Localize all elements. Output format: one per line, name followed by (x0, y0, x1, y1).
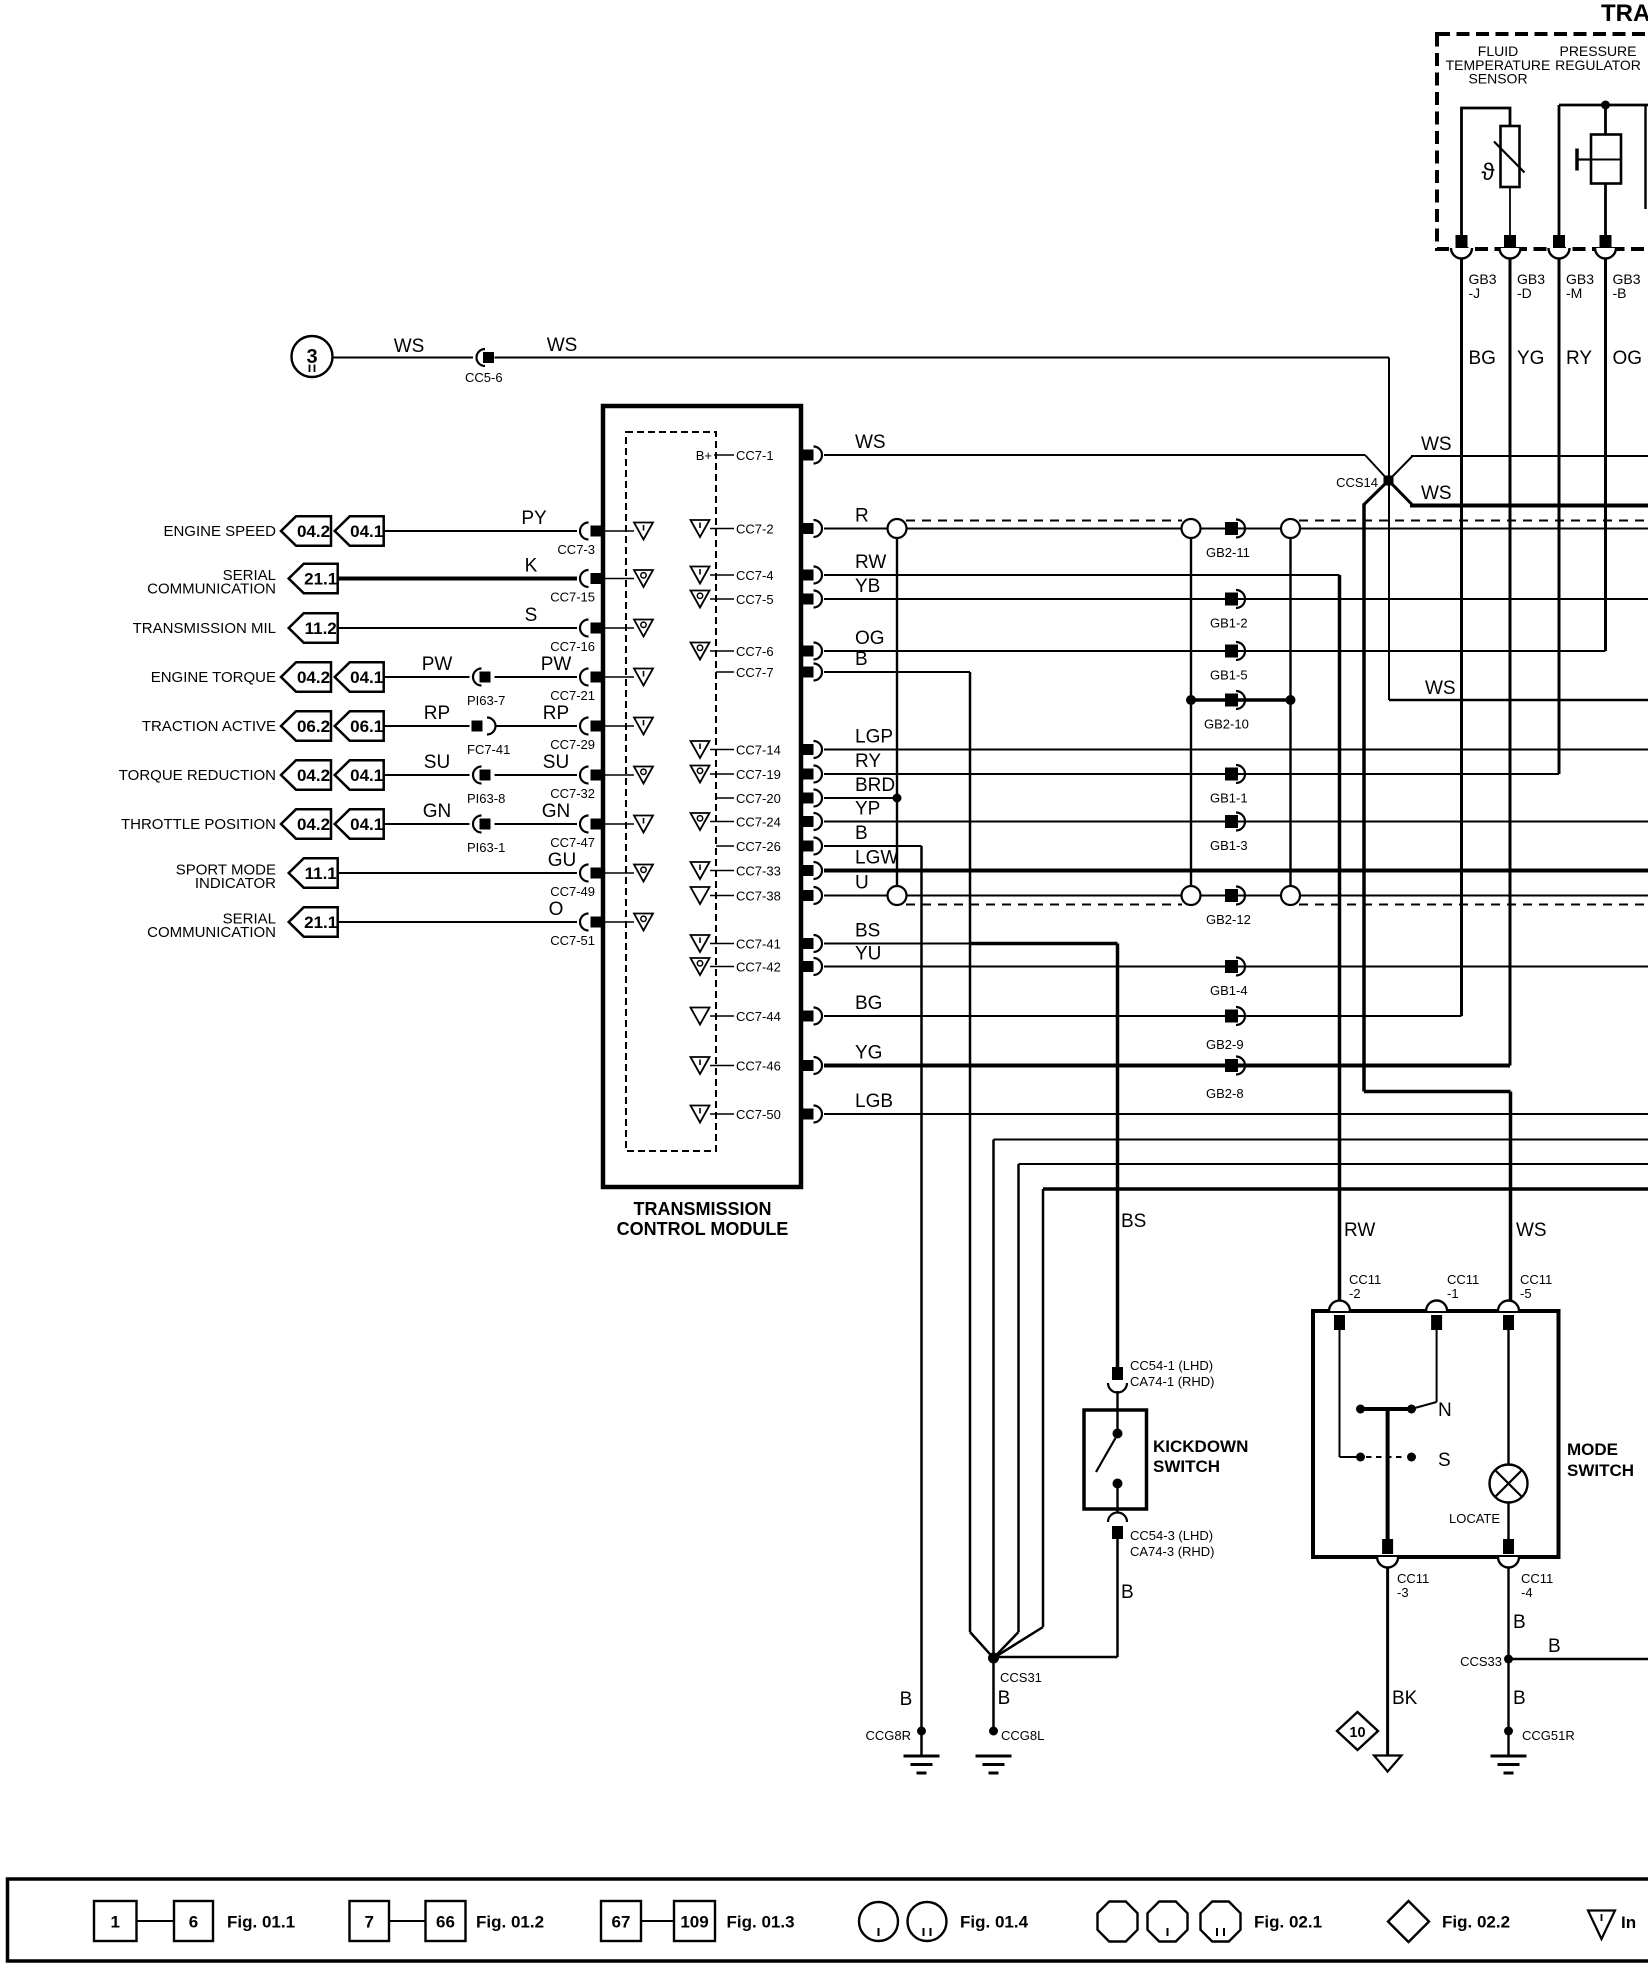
pin CC7-2 on module right edge (803, 523, 814, 534)
svg-text:SU: SU (543, 752, 569, 773)
svg-text:CA74-3 (RHD): CA74-3 (RHD) (1130, 1544, 1215, 1559)
connector GB3-J pin (1456, 235, 1468, 249)
pennant 04.1 (335, 662, 384, 691)
svg-text:PW: PW (541, 654, 572, 675)
svg-text:B: B (855, 649, 868, 670)
svg-text:WS: WS (1516, 1220, 1547, 1241)
svg-text:CC7-42: CC7-42 (736, 960, 781, 975)
svg-text:B: B (855, 823, 868, 844)
svg-text:CC7-14: CC7-14 (736, 743, 781, 758)
svg-text:B: B (1513, 1688, 1526, 1709)
svg-text:-1: -1 (1447, 1286, 1459, 1301)
pin CC7-6 on module right edge (803, 646, 814, 657)
svg-text:Fig. 01.2: Fig. 01.2 (476, 1913, 544, 1932)
connector GB2-12 (1225, 889, 1238, 902)
svg-text:10: 10 (1349, 1725, 1365, 1741)
pin CC7-44 on module right edge (803, 1011, 814, 1022)
wire RP from FC7-41 to CC7-29 (495, 725, 578, 727)
svg-text:Fig. 02.1: Fig. 02.1 (1254, 1913, 1322, 1932)
svg-text:TRA: TRA (1601, 0, 1648, 27)
contact N left dot (1356, 1405, 1365, 1414)
pin CC7-15 on module left edge (580, 570, 588, 587)
svg-text:YU: YU (855, 944, 881, 965)
wire GN from pennant to connector PI63-1 (384, 823, 470, 825)
bus wire between R and U rings (896, 538, 898, 886)
svg-text:Fig. 01.3: Fig. 01.3 (727, 1913, 795, 1932)
pin CC11-2 mode switch top (1329, 1301, 1350, 1311)
transmission unit dashed enclosure (1437, 34, 1648, 249)
svg-text:1: 1 (111, 1913, 120, 1932)
pin CC11-5 mode switch top (1498, 1301, 1519, 1312)
wire WS upper branch to right edge (1411, 455, 1648, 457)
svg-text:S: S (1438, 1450, 1451, 1471)
mode switch internal wire from CC11-2 to S contact (1339, 1330, 1341, 1457)
svg-text:CC7-38: CC7-38 (736, 889, 781, 904)
wire B from CC11-4 to ground CCG51R (1507, 1567, 1509, 1755)
off-page arrow down (1374, 1756, 1402, 1772)
wire RY from GB3-M down (1558, 259, 1561, 774)
svg-text:LGB: LGB (855, 1091, 893, 1112)
node ring on U wire at bus (888, 886, 907, 905)
svg-text:CC7-29: CC7-29 (550, 737, 595, 752)
pin CC7-20 on module right edge (803, 793, 814, 804)
input/output symbol for CC7-14 (691, 741, 710, 758)
svg-text:COMMUNICATION: COMMUNICATION (147, 924, 276, 941)
svg-text:CC7-46: CC7-46 (736, 1059, 781, 1074)
svg-text:WS: WS (1421, 483, 1452, 504)
svg-text:GB1-2: GB1-2 (1210, 616, 1248, 631)
pin CC7-7 on module right edge (803, 667, 814, 678)
wire into kickdown switch (1116, 1391, 1118, 1431)
armature bar pressure regulator (1575, 149, 1579, 171)
svg-text:-5: -5 (1520, 1286, 1532, 1301)
pin CC7-49 on module left edge (580, 865, 588, 882)
svg-text:RP: RP (543, 703, 569, 724)
svg-text:GB2-8: GB2-8 (1206, 1086, 1244, 1101)
svg-text:-2: -2 (1349, 1286, 1361, 1301)
svg-text:11.1: 11.1 (305, 864, 337, 883)
svg-text:CC7-16: CC7-16 (550, 639, 595, 654)
switch MODE SWITCH box (1313, 1311, 1559, 1557)
svg-text:21.1: 21.1 (304, 570, 337, 589)
svg-text:KICKDOWN: KICKDOWN (1153, 1437, 1248, 1456)
svg-text:67: 67 (612, 1913, 631, 1932)
connector GB1-5 (1225, 645, 1238, 658)
input/output symbol for CC7-2 (691, 520, 710, 537)
internal link and input/output symbol for CC7-21 (605, 676, 634, 678)
svg-text:RW: RW (1344, 1220, 1375, 1241)
pin CC7-16 on module left edge (580, 620, 588, 637)
pin CC11-1 mode switch top (1426, 1301, 1447, 1312)
internal link and input/output symbol for CC7-51 (605, 921, 634, 923)
internal link and input/output symbol for CC7-15 (605, 578, 634, 580)
node ring on U wire right of GB2-12 (1281, 886, 1300, 905)
input/output symbol for CC7-42 (691, 958, 710, 975)
wire WS from CC5-6 to splice CCS14 (495, 357, 1390, 359)
wire regulator coil top (1604, 105, 1607, 135)
ground CCG8L (989, 1727, 998, 1736)
connector GB3-D pin (1504, 235, 1516, 249)
pin CC7-1 on module right edge (803, 450, 814, 461)
svg-text:YB: YB (855, 576, 880, 597)
pin CC7-4 on module right edge (803, 570, 814, 581)
svg-text:B: B (998, 1688, 1011, 1709)
svg-text:SENSOR: SENSOR (1468, 71, 1527, 87)
svg-text:GB1-3: GB1-3 (1210, 838, 1248, 853)
dashed link S contacts (1366, 1456, 1406, 1458)
svg-text:-M: -M (1566, 285, 1582, 301)
svg-text:CCS33: CCS33 (1460, 1654, 1502, 1669)
connector PI63-8 (473, 767, 482, 784)
pin CC7-46 on module right edge (803, 1060, 814, 1071)
legend item Fig. 01.1 (94, 1901, 137, 1941)
svg-text:3: 3 (306, 346, 317, 368)
pin CC7-26 on module right edge (803, 841, 814, 852)
pennant 06.2 (281, 711, 331, 740)
svg-text:PY: PY (521, 508, 547, 529)
pennant 04.2 (281, 662, 331, 691)
pin CC7-33 on module right edge (803, 865, 814, 876)
wire PY to CC7-3 (384, 530, 577, 532)
internal link and input/output symbol for CC7-32 (605, 774, 634, 776)
wire YU from CC7-42 to right edge (824, 966, 1648, 968)
thermistor fluid temperature sensor (1501, 126, 1520, 187)
wire SU from pennant to connector PI63-8 (384, 774, 470, 776)
wire WS branch to GB2 rail row (1389, 699, 1648, 702)
internal link and input/output symbol for CC7-16 (605, 627, 634, 629)
pin CC11-3 mode switch bottom (1377, 1557, 1398, 1568)
svg-text:CC11: CC11 (1521, 1571, 1553, 1586)
svg-text:WS: WS (1425, 678, 1456, 699)
svg-text:CC11: CC11 (1397, 1571, 1429, 1586)
svg-text:THROTTLE POSITION: THROTTLE POSITION (121, 816, 276, 833)
wire RY from CC7-19 to GB3-M (824, 773, 1559, 775)
svg-text:INDICATOR: INDICATOR (195, 875, 276, 892)
wire link GB2-10 between rails (1191, 698, 1291, 702)
svg-text:66: 66 (436, 1913, 455, 1932)
svg-text:SWITCH: SWITCH (1153, 1457, 1220, 1476)
svg-text:B: B (1121, 1582, 1134, 1603)
wire OG from GB3-B down (1604, 259, 1607, 651)
svg-text:6: 6 (189, 1913, 198, 1932)
svg-text:CC54-3 (LHD): CC54-3 (LHD) (1130, 1528, 1213, 1543)
switch KICKDOWN SWITCH box (1084, 1410, 1147, 1509)
svg-text:CC7-44: CC7-44 (736, 1009, 781, 1024)
wire WS vertical through CCS14 (1388, 358, 1390, 701)
ground CCG51R (1504, 1727, 1513, 1736)
svg-text:CCS14: CCS14 (1336, 475, 1378, 490)
node ring on R wire right of GB2-11 (1281, 519, 1300, 538)
svg-text:06.2: 06.2 (297, 717, 330, 736)
bus wire GB2 left rail (1190, 538, 1192, 886)
svg-text:K: K (525, 556, 538, 577)
svg-text:GB1-5: GB1-5 (1210, 668, 1248, 683)
pin CC7-21 on module left edge (580, 669, 588, 686)
input/output symbol for CC7-5 (691, 591, 710, 608)
internal link and input/output symbol for CC7-47 (605, 823, 634, 825)
svg-text:B: B (1513, 1612, 1526, 1633)
pennant 11.2 (289, 613, 338, 642)
wire LGB from CC7-50 to right edge (824, 1113, 1648, 1115)
pennant 21.1 (289, 564, 338, 593)
connector CC54-1/CA74-1 (1112, 1367, 1123, 1380)
svg-text:CC7-7: CC7-7 (736, 665, 774, 680)
svg-text:U: U (855, 873, 869, 894)
legend item Fig. 01.2 (350, 1901, 390, 1941)
pennant 04.1 (335, 516, 384, 545)
svg-text:7: 7 (365, 1913, 374, 1932)
wire WS thick branch down to mode switch jog (1362, 504, 1366, 1092)
svg-text:PI63-8: PI63-8 (467, 791, 505, 806)
junction dot left GB2-10 (1186, 695, 1196, 705)
svg-text:CONTROL MODULE: CONTROL MODULE (617, 1219, 789, 1239)
wire YG from CC7-46 to GB3-D (824, 1064, 1510, 1068)
svg-text:GB2-12: GB2-12 (1206, 912, 1251, 927)
wire RP from pennant to connector FC7-41 (384, 725, 470, 727)
svg-text:CC7-24: CC7-24 (736, 815, 781, 830)
connector GB1-2 (1225, 593, 1238, 606)
wire B from CC7-7 to splice CCS31 (824, 671, 970, 673)
pin CC7-29 on module left edge (580, 718, 588, 735)
svg-text:In: In (1621, 1913, 1636, 1932)
svg-text:06.1: 06.1 (350, 717, 383, 736)
pennant 06.1 (335, 711, 384, 740)
svg-text:CC7-15: CC7-15 (550, 590, 595, 605)
svg-text:CC7-50: CC7-50 (736, 1107, 781, 1122)
svg-text:CA74-1 (RHD): CA74-1 (RHD) (1130, 1374, 1215, 1389)
pin CC7-14 on module right edge (803, 744, 814, 755)
wire pressure regulator left leg (1558, 105, 1561, 238)
svg-text:YG: YG (855, 1043, 882, 1064)
svg-text:TRACTION ACTIVE: TRACTION ACTIVE (142, 718, 276, 735)
svg-text:COMMUNICATION: COMMUNICATION (147, 581, 276, 598)
pennant 04.2 (281, 516, 331, 545)
wire S to CC7-16 (338, 627, 577, 629)
svg-text:YP: YP (855, 799, 880, 820)
svg-text:OG: OG (1613, 348, 1643, 369)
pin CC7-32 on module left edge (580, 767, 588, 784)
wire from right edge to splice CCS31 lower thick (1043, 1187, 1648, 1191)
svg-text:ENGINE TORQUE: ENGINE TORQUE (151, 669, 276, 686)
internal link for CC7-20 (716, 797, 734, 799)
node ring on R wire at bus (888, 519, 907, 538)
node 3-II power feed circle (292, 336, 333, 377)
svg-text:CC11: CC11 (1520, 1272, 1552, 1287)
solenoid pressure regulator (1591, 135, 1621, 184)
svg-text:RY: RY (855, 751, 881, 772)
node ring on R wire left of GB2-11 (1182, 519, 1201, 538)
svg-text:04.2: 04.2 (297, 815, 330, 834)
wire LGP from CC7-14 to right edge (824, 749, 1648, 751)
wire B from kickdown to splice CCS31 (1116, 1539, 1119, 1657)
wire thermistor to GB3-D pin (1509, 187, 1511, 238)
splice CCS31 (988, 1653, 999, 1664)
lamp LOCATE (1490, 1465, 1528, 1503)
wire LGW from CC7-33 to right edge (824, 869, 1648, 873)
svg-text:CC7-41: CC7-41 (736, 937, 781, 952)
svg-text:CC7-19: CC7-19 (736, 767, 781, 782)
svg-text:OG: OG (855, 628, 885, 649)
legend item Fig. 01.3 (601, 1901, 641, 1941)
splice CCS14 (1366, 456, 1389, 481)
svg-text:Fig. 01.1: Fig. 01.1 (227, 1913, 295, 1932)
connector GB1-1 (1225, 768, 1238, 781)
connector GB2-8 (1225, 1059, 1238, 1072)
svg-text:WS: WS (855, 432, 886, 453)
connector GB3-B pin (1600, 235, 1612, 249)
legend item internal symbol triangle (1588, 1911, 1615, 1940)
svg-text:PI63-1: PI63-1 (467, 840, 505, 855)
wire BS from CC7-41 to kickdown switch (824, 943, 970, 945)
svg-text:FC7-41: FC7-41 (467, 742, 510, 757)
legend item Fig. 01.4 circles (859, 1902, 898, 1941)
internal link and input/output symbol for CC7-3 (605, 530, 634, 532)
svg-text:-J: -J (1469, 285, 1481, 301)
svg-text:04.2: 04.2 (297, 668, 330, 687)
pin CC7-42 on module right edge (803, 961, 814, 972)
svg-text:CC5-6: CC5-6 (465, 370, 503, 385)
connector FC7-41 (472, 721, 483, 732)
svg-text:-B: -B (1613, 285, 1627, 301)
pennant 11.1 (289, 858, 338, 887)
connector CC5-6 (477, 349, 486, 366)
svg-text:GB2-10: GB2-10 (1204, 717, 1249, 732)
internal link for CC7-26 (716, 845, 734, 847)
pin CC7-38 on module right edge (803, 890, 814, 901)
svg-text:B+: B+ (696, 448, 712, 463)
svg-text:PI63-7: PI63-7 (467, 693, 505, 708)
pennant 04.1 (335, 809, 384, 838)
internal link and input/output symbol for CC7-29 (605, 725, 634, 727)
input/output symbol for CC7-19 (691, 766, 710, 783)
svg-text:04.1: 04.1 (350, 766, 383, 785)
wire BRD from CC7-20 to bus junction (824, 797, 897, 799)
pin CC7-50 on module right edge (803, 1109, 814, 1120)
connector GB1-3 (1225, 815, 1238, 828)
inner dashed boundary of control module (626, 432, 716, 1151)
wire pressure regulator top feed (1559, 104, 1648, 107)
svg-text:CC7-5: CC7-5 (736, 592, 774, 607)
pennant 04.2 (281, 760, 331, 789)
contact N right dot (1407, 1405, 1416, 1414)
wire YP from CC7-24 to right edge (824, 821, 1648, 823)
connector PI63-1 (473, 816, 482, 833)
svg-text:CC7-51: CC7-51 (550, 933, 595, 948)
node ring on U wire left of GB2-12 (1182, 886, 1201, 905)
svg-text:GB1-4: GB1-4 (1210, 983, 1248, 998)
bus wire GB2 right rail (1289, 538, 1291, 886)
dashed shield line along U wire (906, 904, 1182, 906)
input/output symbol for CC7-4 (691, 567, 710, 584)
legend item Fig. 02.2 diamond (1388, 1901, 1429, 1942)
svg-text:REGULATOR: REGULATOR (1555, 57, 1641, 73)
svg-text:SWITCH: SWITCH (1567, 1461, 1634, 1480)
junction dot pressure regulator feed (1601, 101, 1610, 110)
svg-text:B: B (1548, 1636, 1561, 1657)
wire RW from CC7-4 to mode switch CC11-2 (824, 574, 1340, 576)
svg-text:CCG51R: CCG51R (1522, 1728, 1575, 1743)
pin CC7-47 on module left edge (580, 816, 588, 833)
connector GB2-9 (1225, 1010, 1238, 1023)
pin CC11-4 mode switch bottom (1498, 1557, 1519, 1568)
input/output symbol for CC7-38 (691, 887, 710, 904)
svg-text:ENGINE SPEED: ENGINE SPEED (163, 523, 276, 540)
svg-text:CC7-21: CC7-21 (550, 688, 595, 703)
svg-text:CC7-3: CC7-3 (557, 542, 595, 557)
svg-text:GN: GN (542, 801, 571, 822)
pin CC7-3 on module left edge (580, 523, 588, 540)
svg-text:N: N (1438, 1400, 1452, 1421)
svg-text:SU: SU (424, 752, 450, 773)
wire K to CC7-15 (338, 577, 577, 581)
wire BG from CC7-44 to GB3-J (824, 1015, 1462, 1017)
wire GU to CC7-49 (338, 872, 577, 874)
connector GB2-11 (1225, 522, 1238, 535)
svg-text:WS: WS (547, 335, 578, 356)
wire cut-off component at right edge (1644, 105, 1646, 209)
svg-text:O: O (549, 899, 564, 920)
svg-text:CC7-2: CC7-2 (736, 522, 774, 537)
svg-text:BS: BS (1121, 1211, 1146, 1232)
svg-text:CC7-20: CC7-20 (736, 791, 781, 806)
ground CCG8R (917, 1727, 926, 1736)
svg-text:BRD: BRD (855, 775, 895, 796)
svg-text:11.2: 11.2 (305, 619, 337, 638)
svg-text:CC11: CC11 (1349, 1272, 1381, 1287)
internal link and input/output symbol for CC7-49 (605, 872, 634, 874)
connector PI63-7 (473, 669, 482, 686)
pin CC7-5 on module right edge (803, 594, 814, 605)
svg-text:BK: BK (1392, 1688, 1418, 1709)
wire YG from GB3-D down (1509, 259, 1512, 1066)
wire WS from CC7-1 to splice CCS14 (824, 454, 1366, 456)
wire WS from node 3 to connector CC5-6 (333, 357, 474, 359)
svg-text:CC54-1 (LHD): CC54-1 (LHD) (1130, 1358, 1213, 1373)
wire CC11-5 to locate lamp (1507, 1330, 1509, 1465)
svg-text:LOCATE: LOCATE (1449, 1511, 1500, 1526)
svg-text:109: 109 (680, 1913, 708, 1932)
wire O to CC7-51 (338, 921, 577, 923)
wire B from CC7-26 to ground CCG8R (824, 845, 922, 847)
movable contact wire to CC11-3 (1386, 1411, 1390, 1539)
wire SU from PI63-8 to CC7-32 (495, 774, 578, 776)
svg-text:WS: WS (1421, 434, 1452, 455)
wire U from CC7-38 to right edge (824, 895, 1648, 897)
svg-text:MODE: MODE (1567, 1440, 1618, 1459)
svg-text:04.1: 04.1 (350, 815, 383, 834)
svg-text:CCS31: CCS31 (1000, 1670, 1042, 1685)
wire BG from GB3-J down (1460, 259, 1463, 1016)
reference diamond 10 (1337, 1712, 1378, 1750)
connector GB1-4 (1225, 960, 1238, 973)
svg-text:21.1: 21.1 (304, 913, 337, 932)
input/output symbol for CC7-6 (691, 643, 710, 660)
svg-text:BS: BS (855, 921, 880, 942)
legend frame (8, 1879, 1648, 1961)
input/output symbol for CC7-46 (691, 1057, 710, 1074)
svg-text:R: R (855, 506, 869, 527)
svg-text:GB2-9: GB2-9 (1206, 1037, 1244, 1052)
input/output symbol for CC7-24 (691, 813, 710, 830)
svg-text:TORQUE REDUCTION: TORQUE REDUCTION (119, 767, 276, 784)
svg-text:CC7-32: CC7-32 (550, 786, 595, 801)
svg-text:RY: RY (1566, 348, 1592, 369)
svg-text:ϑ: ϑ (1481, 159, 1494, 186)
svg-text:LGW: LGW (855, 848, 898, 869)
input/output symbol for CC7-33 (691, 862, 710, 879)
svg-text:04.2: 04.2 (297, 522, 330, 541)
wire B branch from CCS33 to right edge (1509, 1658, 1648, 1660)
